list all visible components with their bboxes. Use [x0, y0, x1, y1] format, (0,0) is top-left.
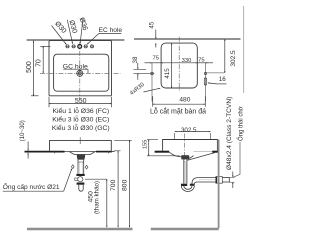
svg-text:Kiểu 3 lỗ Ø30 (EC): Kiểu 3 lỗ Ø30 (EC) — [52, 114, 109, 123]
svg-text:70: 70 — [35, 59, 42, 67]
wire leader waiting pipe — [233, 142, 240, 177]
svg-text:16: 16 — [219, 76, 226, 83]
svg-text:480: 480 — [179, 97, 190, 104]
svg-text:Ø48x2.4 (Class 2-TCVN): Ø48x2.4 (Class 2-TCVN) — [226, 97, 233, 170]
component trap outlet elbow — [192, 178, 198, 186]
svg-text:155: 155 — [143, 140, 149, 150]
ground floor line left — [27, 228, 133, 231]
dimension 75 330 75 — [145, 62, 214, 64]
node sink outer rim (top view) — [49, 41, 112, 96]
node center line horizontal (top view) — [40, 72, 121, 74]
component lower nut — [77, 183, 85, 185]
component pop-up rod — [188, 153, 215, 161]
svg-text:302.5: 302.5 — [230, 50, 237, 67]
dimension 70 — [40, 46, 50, 73]
node countertop right piece (side view) — [212, 151, 218, 153]
node front view rim — [50, 140, 112, 150]
svg-text:800: 800 — [121, 179, 128, 191]
node center line (cut hole) — [178, 37, 180, 92]
node hole H4 — [84, 45, 88, 48]
node mounting hole right + slot — [204, 63, 224, 102]
dimension (10~30) — [27, 142, 29, 159]
svg-text:45: 45 — [148, 21, 155, 28]
wire supply leader — [64, 169, 72, 192]
node hole H1 — [65, 45, 69, 48]
node mounting hole left — [150, 63, 155, 102]
wire leader Ø36 — [80, 18, 83, 44]
svg-text:(tham khảo): (tham khảo) — [94, 181, 101, 214]
svg-text:550: 550 — [75, 98, 87, 105]
component P-trap U bend — [181, 186, 194, 192]
node basin wall ticks (front view) — [54, 151, 56, 154]
node countertop left piece (side view) — [155, 151, 170, 153]
dimension 550 — [49, 97, 112, 108]
dimension 302.5 horizontal (side view) — [175, 132, 211, 140]
svg-text:Kiểu 1 lỗ Ø36 (FC): Kiểu 1 lỗ Ø36 (FC) — [52, 106, 109, 115]
dimension 800 — [114, 140, 132, 227]
svg-text:Ø30: Ø30 — [53, 20, 67, 35]
wire leader EC hole — [87, 33, 99, 44]
node sink basin inner edge (top view) — [54, 54, 109, 91]
node side view rim — [163, 140, 218, 151]
node countertop cut hole rect — [161, 43, 197, 88]
svg-text:415: 415 — [164, 68, 171, 79]
wire 450 reference line — [85, 178, 107, 180]
dimension 38 — [134, 63, 150, 80]
dimension 480 — [153, 96, 206, 106]
svg-text:38: 38 — [132, 56, 139, 63]
node center line (side view drain axis) — [184, 134, 186, 163]
dimension 45 — [155, 30, 157, 48]
component horizontal waste pipe — [197, 178, 215, 182]
wall (side view) — [218, 140, 220, 229]
component trap nuts — [181, 184, 187, 186]
node hole H5 — [91, 45, 94, 48]
node center line vertical (top view) — [79, 42, 81, 100]
dimension 415 — [171, 43, 173, 88]
dimension 155 — [147, 140, 180, 156]
svg-text:500: 500 — [26, 61, 33, 73]
svg-text:Ống thải chờ: Ống thải chờ — [237, 106, 244, 141]
svg-text:Ø36: Ø36 — [78, 17, 89, 32]
node hole H3 FC — [78, 45, 82, 49]
svg-text:75: 75 — [152, 55, 158, 61]
node anchor diamond right — [85, 165, 88, 169]
wire: wall line top-left view — [27, 39, 125, 41]
svg-text:700: 700 — [110, 179, 117, 191]
component supply pipe end — [79, 185, 83, 192]
node countertop (front view) — [25, 151, 65, 153]
component slip nut (front view) — [76, 174, 84, 176]
svg-text:330: 330 — [182, 58, 192, 64]
svg-text:Ống cấp nước Ø21: Ống cấp nước Ø21 — [3, 181, 60, 191]
wire leader Ø30 #2 — [67, 20, 72, 44]
component wall collar — [216, 177, 223, 184]
component valve union circle — [75, 178, 78, 180]
dimension 700 — [114, 151, 120, 228]
component tailpipe (front view) — [78, 160, 84, 174]
svg-text:302.5: 302.5 — [181, 127, 197, 134]
dimension 302.5 vertical — [224, 39, 226, 73]
wire leader 4xR30 — [144, 88, 161, 92]
svg-text:Lỗ cắt mặt bàn đá: Lỗ cắt mặt bàn đá — [150, 106, 206, 115]
dimension 500 — [31, 41, 39, 96]
node basin underside dip (front view) — [70, 152, 95, 155]
svg-text:Kiểu 3 lỗ Ø30 (GC): Kiểu 3 lỗ Ø30 (GC) — [52, 123, 110, 132]
component drain flange (side view) — [181, 155, 189, 159]
node hole H2 — [71, 45, 75, 48]
wire leader Ø30 #1 — [52, 26, 67, 45]
svg-text:(10~30): (10~30) — [19, 120, 26, 141]
wire border segment right — [243, 6, 245, 93]
wire: wall line top-right view — [134, 38, 241, 40]
component waste stub — [222, 177, 229, 182]
svg-text:75: 75 — [198, 58, 204, 64]
node GC hole — [76, 70, 84, 78]
component trap tailpipe (side view) — [184, 159, 187, 183]
svg-text:4xR30: 4xR30 — [129, 82, 146, 97]
dimension 450 — [106, 179, 108, 227]
component drain flange (front view) — [77, 155, 85, 160]
dimension Ø48 arrows — [230, 172, 235, 189]
node basin underside (side view) — [169, 152, 193, 159]
ground floor line right — [151, 228, 219, 231]
node anchor diamond left — [71, 165, 74, 169]
node center tick front view — [79, 137, 81, 144]
